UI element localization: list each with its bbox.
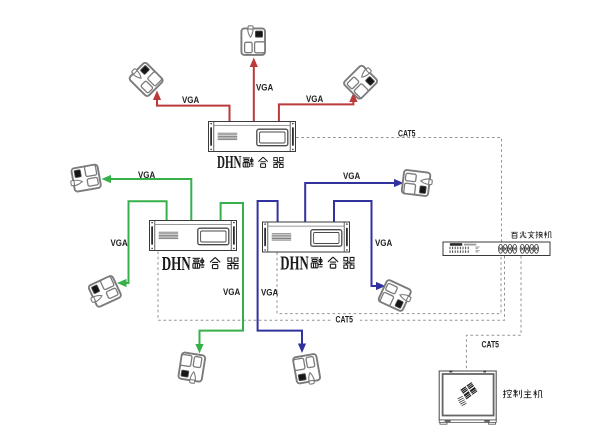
- windows logo on screen: [453, 382, 480, 406]
- fusion device U2: [150, 221, 237, 251]
- svg-text:DHN: DHN: [162, 254, 191, 275]
- arrowhead green P4: [102, 175, 112, 183]
- projector P7 right-middle: [401, 170, 433, 197]
- arrowhead blue P7: [394, 179, 404, 187]
- port group 2: [520, 244, 524, 253]
- projector P9 bottom-right: [293, 354, 321, 387]
- arrowhead red middle: [250, 58, 258, 68]
- svg-text:VGA: VGA: [138, 170, 155, 180]
- svg-text:VGA: VGA: [111, 238, 128, 248]
- projector P5 left-lower: [85, 275, 121, 309]
- projector P2 top-center: [241, 26, 265, 55]
- svg-text:VGA: VGA: [306, 94, 323, 104]
- projector P6 bottom-left: [178, 352, 206, 384]
- arrowhead green P6: [195, 344, 203, 354]
- fusion device U1: [209, 122, 296, 152]
- label DHN融合器 U1: [217, 152, 284, 172]
- label CAT5 middle: [333, 315, 360, 324]
- control host monitor: [439, 371, 496, 425]
- fusion device U3: [263, 222, 350, 252]
- wire CAT5 fusion3 bottom to switch bottom: [277, 253, 501, 314]
- label DHN融合器 U3: [280, 254, 354, 275]
- svg-text:VGA: VGA: [182, 95, 199, 105]
- label 百兆交换机: [511, 231, 552, 238]
- wire VGA green to projector P6: [200, 203, 244, 345]
- wire VGA blue to projector P9: [258, 201, 302, 345]
- projector P4 left-middle: [68, 164, 101, 192]
- wire VGA blue to projector P8: [334, 201, 377, 286]
- wire VGA red left: [157, 99, 230, 122]
- wire VGA red middle: [253, 66, 255, 122]
- arrowhead blue P9: [298, 344, 306, 354]
- svg-text:VGA: VGA: [375, 238, 392, 248]
- wire VGA green to projector P4: [110, 179, 192, 221]
- projector P8 right-lower: [378, 279, 414, 313]
- wire VGA blue to projector P7: [305, 183, 395, 222]
- svg-text:VGA: VGA: [343, 171, 360, 181]
- switch 百兆交换机: [443, 242, 550, 256]
- svg-text:DHN: DHN: [217, 152, 242, 172]
- svg-text:VGA: VGA: [223, 287, 240, 297]
- TP-LINK logo text: [450, 243, 463, 246]
- wire CAT5 switch bottom to control host: [466, 256, 521, 370]
- arrowhead blue P8: [376, 282, 386, 290]
- port group 1: [498, 244, 502, 253]
- svg-text:CAT5: CAT5: [482, 340, 500, 350]
- label 控制主机: [503, 390, 542, 399]
- svg-text:CAT5: CAT5: [398, 129, 416, 139]
- projector P3 top-right: [343, 63, 380, 100]
- arrowhead red left: [153, 91, 161, 101]
- label DHN融合器 U2: [162, 254, 239, 275]
- LED rows: [450, 247, 468, 253]
- wire CAT5 fusion2 bottom to switch bottom: [158, 252, 505, 321]
- svg-text:VGA: VGA: [261, 288, 278, 298]
- arrowhead red right: [349, 93, 357, 103]
- wire CAT5 fusion1 to switch top: [296, 138, 502, 242]
- svg-text:DHN: DHN: [280, 254, 309, 275]
- wire VGA green to projector P5: [125, 201, 167, 283]
- projector P1 top-left: [127, 60, 164, 97]
- arrowhead green P5: [117, 279, 127, 287]
- svg-text:VGA: VGA: [256, 83, 273, 93]
- wire VGA red right: [279, 101, 354, 122]
- svg-text:CAT5: CAT5: [336, 315, 354, 325]
